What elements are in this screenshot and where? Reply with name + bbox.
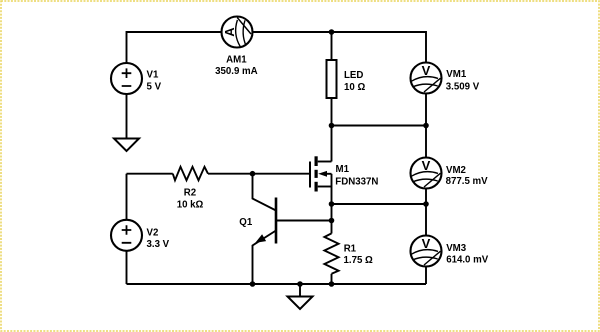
resistor R1 zigzag (324, 233, 338, 273)
node dot VM1 bottom (423, 123, 429, 129)
wire ground stub on bottom rail (299, 284, 301, 297)
svg-text:A: A (222, 27, 237, 37)
wire LED bottom node to VM1 bottom node (332, 125, 427, 127)
wire V2 bottom lead (126, 252, 128, 285)
svg-text:V: V (422, 63, 431, 78)
svg-text:877.5 mV: 877.5 mV (446, 176, 489, 187)
svg-text:3.509 V: 3.509 V (446, 81, 480, 92)
wire R1 bottom lead (331, 274, 333, 284)
wire M1 source stub (318, 186, 332, 188)
svg-text:350.9 mA: 350.9 mA (215, 66, 258, 77)
wire VM2 bottom to VM3 top (425, 188, 427, 237)
svg-text:1.75 Ω: 1.75 Ω (344, 255, 374, 266)
svg-text:V1: V1 (147, 70, 159, 81)
wire R2 left lead (127, 173, 173, 175)
node dot bottom rail at ground (297, 281, 303, 287)
wire ground lead under V1 (126, 94, 128, 139)
wire M1 drain stub (318, 161, 332, 163)
svg-text:AM1: AM1 (226, 55, 247, 66)
wire R2 right lead to M1 gate (208, 173, 309, 175)
transistor M1 channel bar bottom (315, 182, 318, 192)
svg-text:V: V (422, 158, 431, 173)
transistor Q1 emitter arrow (255, 234, 266, 243)
resistor R2 zigzag (173, 167, 208, 181)
ammeter AM1 (222, 17, 253, 48)
node dot bottom rail at Q1 emitter (250, 281, 256, 287)
wire node A down to LED top (331, 32, 333, 61)
wire M1 body stub (325, 173, 332, 175)
wire M1 source node rail to VM2 node (332, 203, 427, 205)
svg-text:10 kΩ: 10 kΩ (177, 199, 204, 210)
node dot LED bottom (329, 123, 335, 129)
ground symbol on bottom rail (288, 297, 313, 310)
node dot Q1 base at R1 top (329, 218, 335, 224)
svg-text:V: V (422, 236, 431, 251)
LED body (box) (327, 60, 337, 98)
wire Q1 base lead (276, 220, 332, 222)
voltmeter VM1 (411, 63, 442, 94)
node dot VM2 bottom (423, 201, 429, 207)
svg-text:R1: R1 (344, 243, 357, 254)
wire VM1 bottom to VM2 top (425, 92, 427, 159)
node dot bottom rail at R1 (329, 281, 335, 287)
transistor Q1 base bar (275, 198, 278, 244)
svg-text:R2: R2 (184, 188, 196, 199)
svg-text:VM1: VM1 (446, 69, 467, 80)
svg-text:3.3 V: 3.3 V (147, 239, 170, 250)
node dot top rail at LED (329, 29, 335, 35)
voltmeter VM3 (411, 236, 442, 267)
svg-text:5 V: 5 V (147, 82, 162, 93)
voltage source V1 (111, 63, 142, 94)
svg-text:10 Ω: 10 Ω (344, 82, 365, 93)
voltage source V2 (111, 220, 142, 251)
node dot M1 source rail left (329, 201, 335, 207)
voltmeter VM2 (411, 158, 442, 189)
wire top rail node A to VM1 column (332, 32, 427, 63)
wire Q1 collector lead (253, 174, 277, 211)
wire M1 drain vertical (331, 126, 333, 162)
node dot R2 rail at Q1 collector (250, 171, 256, 177)
svg-text:FDN337N: FDN337N (335, 176, 378, 187)
wire M1 source column down to R1 top (331, 174, 333, 234)
wire V2 top lead (126, 174, 128, 220)
transistor M1 gate plate (309, 162, 311, 188)
wire bottom rail (127, 283, 427, 285)
svg-text:V2: V2 (147, 228, 159, 239)
svg-text:M1: M1 (336, 164, 350, 175)
wire Q1 emitter lead (253, 231, 277, 285)
wire LED bottom lead (331, 98, 333, 126)
wire VM3 bottom to bottom rail (425, 266, 427, 284)
svg-text:614.0 mV: 614.0 mV (446, 255, 489, 266)
svg-text:VM3: VM3 (446, 243, 467, 254)
svg-text:Q1: Q1 (239, 217, 253, 228)
wire V1 top lead and top rail to node A (127, 32, 332, 64)
transistor M1 channel bar middle (315, 170, 318, 178)
transistor M1 body arrow (318, 171, 327, 177)
svg-text:LED: LED (344, 70, 363, 81)
ground symbol under V1 (114, 139, 139, 152)
transistor M1 channel bar top (315, 156, 318, 166)
svg-text:VM2: VM2 (446, 165, 466, 176)
